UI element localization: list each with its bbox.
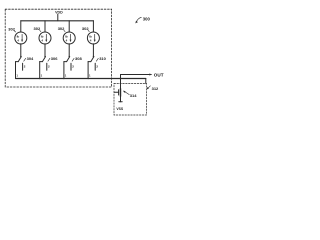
switch S2 (44, 44, 46, 57)
svg-text:304: 304 (27, 56, 34, 61)
svg-text:312: 312 (152, 86, 159, 91)
svg-text:VDD: VDD (55, 10, 63, 14)
wire drop to source 1 (20, 21, 22, 33)
svg-text:OUT: OUT (154, 72, 164, 77)
switch S3 (68, 44, 70, 57)
wire OUT with arrow (121, 74, 152, 76)
node OUT junction (120, 78, 122, 80)
switch S1 (20, 44, 22, 57)
svg-text:306: 306 (51, 56, 58, 61)
current source I3 (Ib/4) (63, 32, 75, 44)
wire bus downturn into load box (145, 79, 147, 84)
current source I2 (Ib/4) (39, 32, 51, 44)
wire junction riser (120, 75, 122, 89)
wire VDD rail (21, 20, 94, 22)
svg-text:2: 2 (48, 64, 50, 68)
svg-text:VSS: VSS (116, 107, 124, 111)
svg-text:2: 2 (72, 64, 74, 68)
wire output bus (16, 78, 146, 80)
svg-text:310: 310 (99, 56, 106, 61)
current source I4 (Ib/4) (87, 32, 99, 44)
junction dots on bus (39, 78, 40, 79)
svg-text:308: 308 (75, 56, 82, 61)
svg-text:1: 1 (41, 74, 43, 78)
wire drop to source 3 (68, 21, 70, 33)
wire drop to source 2 (44, 21, 46, 33)
ground VSS (119, 101, 122, 103)
svg-text:314: 314 (130, 93, 137, 98)
svg-text:2: 2 (96, 64, 98, 68)
transistor M1 (NMOS 314) (115, 91, 119, 93)
svg-text:300: 300 (143, 16, 151, 21)
outer dashed box (5, 9, 111, 87)
load dashed box 312 (114, 83, 147, 115)
svg-text:2: 2 (24, 64, 26, 68)
wire drop to source 4 (92, 21, 94, 33)
svg-text:1: 1 (89, 74, 91, 78)
switch S4 (92, 44, 94, 57)
wire VDD to rail (57, 14, 59, 21)
svg-text:1: 1 (16, 74, 18, 78)
current source I1 (Ib/4) (15, 32, 27, 44)
svg-text:1: 1 (65, 74, 67, 78)
